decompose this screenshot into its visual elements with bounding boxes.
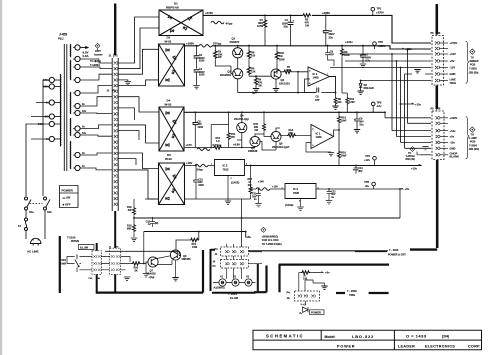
svg-text:10kF: 10kF	[341, 119, 347, 122]
svg-text:-Q/gr: -Q/gr	[149, 276, 155, 279]
potentiometer VR1	[75, 255, 79, 270]
wire J1 to D1 input1	[118, 17, 159, 63]
svg-text:+121v: +121v	[345, 40, 353, 44]
svg-text:+85V(UNREG): +85V(UNREG)	[262, 235, 279, 238]
connector J1/P1 pins	[114, 61, 118, 64]
ground IC3	[300, 199, 302, 207]
flag to CRT heater	[95, 43, 100, 48]
svg-text:T-1456A: T-1456A	[90, 63, 100, 67]
test point TP4	[373, 156, 377, 160]
svg-text:POWER & CRT: POWER & CRT	[388, 253, 406, 256]
flag to sweep	[470, 49, 475, 54]
op-amp IC1b	[311, 125, 334, 149]
LED D1 power	[303, 307, 309, 312]
svg-text:POWER: POWER	[62, 189, 74, 193]
svg-text:(2/4): (2/4)	[442, 335, 449, 339]
wire J1 to D4 input1	[118, 97, 159, 112]
wire VR1 to connectors	[67, 255, 110, 273]
svg-text:+16V: +16V	[186, 161, 193, 165]
svg-text:P4: P4	[213, 265, 217, 268]
svg-text:1u: 1u	[331, 196, 334, 199]
svg-text:IC 2: IC 2	[223, 163, 228, 167]
svg-text:2W: 2W	[248, 184, 252, 187]
svg-text:J4: J4	[215, 253, 218, 256]
label POWER boxed	[310, 310, 325, 315]
svg-text:2SC1815: 2SC1815	[279, 82, 290, 86]
svg-text:+12v: +12v	[364, 158, 371, 162]
svg-text:100: 100	[251, 55, 256, 58]
resistor R15	[263, 112, 265, 123]
svg-text:4Vpp: 4Vpp	[226, 22, 233, 26]
svg-text:A₂(1MAX): A₂(1MAX)	[214, 287, 225, 290]
connector J1/P3 body	[110, 248, 121, 274]
connector P5 heavy bar bottom	[436, 160, 439, 248]
resistor R4	[254, 77, 257, 86]
T1 secondary pin y106	[75, 103, 80, 108]
wire bus vertical C	[396, 61, 398, 137]
svg-text:47P: 47P	[315, 99, 320, 102]
wire bus taps P6	[340, 53, 431, 55]
wire Q7 Q8 couple	[156, 256, 172, 265]
bridge rectifier D1 RBPS-06	[159, 10, 203, 36]
svg-text:RBPS-06: RBPS-06	[166, 6, 179, 10]
ripple D4 out	[197, 148, 210, 151]
svg-text:ILLUM: ILLUM	[230, 296, 238, 300]
svg-text:IC 3: IC 3	[293, 187, 298, 191]
svg-text:2: 2	[312, 129, 314, 131]
wire unreg rail y231.5	[144, 232, 250, 238]
svg-text:7: 7	[327, 74, 329, 76]
wire D4 top rail	[184, 111, 385, 113]
capacitor C5	[321, 92, 335, 94]
svg-text:+12v: +12v	[450, 129, 457, 133]
wire IC2 pin3 gnd	[227, 176, 229, 201]
wire IC1a output	[330, 77, 336, 93]
wire D5 out to IC2	[185, 165, 215, 167]
svg-text:FOR H.V. OSC: FOR H.V. OSC	[262, 239, 279, 242]
connector P6 body	[432, 36, 444, 86]
transistor Q1	[233, 48, 243, 58]
wire lamps link	[213, 252, 262, 283]
svg-text:3: 3	[231, 178, 233, 180]
bridge rectifier D4 W-02	[159, 107, 184, 151]
wire J1 to D4 input2	[118, 125, 159, 143]
svg-text:GND: GND	[450, 72, 456, 76]
transistor Q8	[170, 250, 180, 260]
test point TP5	[372, 182, 376, 186]
transformer T1 secondary winding c	[69, 92, 71, 114]
title block frame	[253, 330, 482, 349]
svg-text:-12V: -12V	[450, 66, 456, 70]
svg-text:T-2554: T-2554	[469, 144, 477, 147]
svg-text:J42: J42	[97, 277, 101, 280]
lamp V3	[245, 279, 252, 286]
T1 primary pin 160V y86.5	[49, 84, 54, 89]
connector J45 body	[221, 260, 249, 269]
svg-text:O = 1433: O = 1433	[406, 334, 427, 339]
ripple 57Vpp D2 out	[199, 45, 212, 48]
lamp V2	[232, 279, 239, 286]
wire +270V rail	[203, 15, 431, 43]
wire J1 to D5 input2	[118, 170, 158, 199]
wire +12V rail	[245, 165, 421, 166]
svg-text:P4↓: P4↓	[287, 292, 291, 295]
svg-text:+: +	[293, 19, 295, 23]
svg-text:10kB: 10kB	[60, 262, 66, 265]
wire D5 bottom rail	[145, 198, 251, 200]
capacitor C7	[362, 46, 364, 56]
svg-text:P(L): P(L)	[58, 37, 64, 41]
wire bus taps P5	[392, 130, 431, 132]
T1 secondary pin y59	[75, 56, 80, 61]
svg-text:J1: J1	[109, 54, 112, 58]
connector J45 pins	[225, 262, 229, 265]
svg-text:(M): (M)	[155, 223, 159, 225]
wire T1 secondaries to J1	[80, 59, 112, 170]
wire CRT heater	[80, 47, 88, 49]
connector trig pins	[298, 295, 302, 298]
svg-text:P4: P4	[215, 248, 219, 251]
resistor R13	[338, 112, 340, 115]
wire into IC3	[251, 188, 257, 190]
connector P5 pins	[436, 116, 440, 119]
T1 secondary pin y135	[75, 132, 80, 137]
svg-text:CORP.: CORP.	[468, 345, 481, 349]
wire lamp connector verticals	[227, 244, 242, 279]
op-amp IC1a	[308, 67, 330, 86]
ground under C7	[360, 64, 366, 67]
wire to LED	[304, 301, 306, 306]
wire conn P3 to R20	[121, 257, 132, 270]
power legend box	[60, 186, 79, 208]
svg-text:47K: 47K	[230, 136, 235, 139]
svg-text:J2: J2	[107, 90, 110, 93]
svg-text:1458: 1458	[313, 76, 319, 80]
svg-text:1W: 1W	[258, 84, 262, 87]
brace P6 group	[466, 41, 470, 84]
svg-text:P42: P42	[89, 277, 94, 280]
svg-text:10kF: 10kF	[341, 154, 347, 157]
wire bus vertical B	[391, 54, 393, 131]
wire J1 to D1 input2	[118, 28, 159, 69]
resistor R10	[342, 93, 347, 97]
svg-text:S1b: S1b	[47, 210, 52, 214]
svg-text:T-2100: T-2100	[67, 235, 76, 239]
wire +12v arrow branch	[401, 103, 414, 104]
resistor R7	[281, 71, 283, 73]
wire 100V to S1a bus	[26, 103, 49, 197]
wire line trig long	[365, 80, 367, 82]
svg-text:IC 1: IC 1	[313, 72, 318, 76]
ground under C3 C4	[193, 86, 199, 89]
T1 secondary pin y80	[75, 77, 80, 82]
wire D4 bottom rail +8.8V	[184, 140, 255, 148]
capacitor C6	[327, 46, 329, 53]
svg-text:+5v: +5v	[405, 187, 410, 191]
connector P42/J42 pins	[93, 255, 96, 258]
svg-text:+100V: +100V	[450, 116, 458, 120]
svg-text:2W: 2W	[128, 209, 132, 212]
switch S1a	[25, 197, 28, 200]
capacitor C2	[325, 15, 327, 30]
T1 primary pin 100V y124	[49, 121, 54, 126]
svg-text:47P: 47P	[329, 54, 334, 57]
T1 secondary pin y67	[75, 64, 80, 69]
svg-text:-Qp/T: -Qp/T	[251, 92, 258, 95]
bridge rectifier D2 W-02	[159, 44, 185, 86]
svg-text:1u: 1u	[254, 198, 257, 201]
svg-text:10k: 10k	[337, 101, 342, 104]
wire +150V emitter rail	[238, 92, 316, 94]
svg-text:(CASE): (CASE)	[231, 182, 239, 185]
capacitor C9	[356, 112, 358, 119]
connector J1/P1 heavy bar top	[114, 4, 116, 56]
capacitor C11	[258, 189, 260, 194]
wire +168V rail	[185, 46, 432, 49]
svg-text:P6: P6	[431, 32, 435, 35]
svg-text:2SC1815-Qp/T: 2SC1815-Qp/T	[272, 145, 290, 149]
resistor R32	[276, 46, 278, 52]
svg-text:T - 2103: T - 2103	[389, 249, 399, 252]
svg-text:J5: J5	[438, 107, 441, 110]
capacitor C10	[195, 166, 197, 181]
wire switch to plug	[26, 210, 45, 239]
svg-text:TP3: TP3	[377, 100, 382, 104]
svg-text:SCHEMATIC: SCHEMATIC	[266, 334, 304, 339]
svg-text:R62 (2b): R62 (2b)	[406, 158, 416, 161]
svg-text:TP4: TP4	[365, 154, 370, 158]
svg-text:1W: 1W	[305, 24, 309, 28]
svg-text:Q3: Q3	[281, 78, 285, 82]
svg-text:1458: 1458	[316, 135, 322, 139]
ripple D5 out	[195, 164, 208, 167]
resistor R11	[228, 112, 230, 132]
svg-text:7812: 7812	[223, 168, 229, 172]
fuse ripple into IC3	[256, 188, 270, 191]
resistor R16	[338, 130, 340, 151]
svg-text:12K: 12K	[251, 71, 256, 74]
transformer T1 secondary winding a	[69, 44, 71, 57]
svg-text:PCB: PCB	[470, 141, 475, 144]
svg-text:TO T-2503 F1(3b): TO T-2503 F1(3b)	[262, 243, 282, 246]
shield TRIG thick segs	[254, 266, 267, 293]
T1 secondary pin y113	[75, 110, 80, 115]
svg-text:T-2502: T-2502	[469, 68, 477, 71]
svg-text:0.3A: 0.3A	[83, 54, 90, 58]
svg-text:LEADER: LEADER	[398, 345, 415, 349]
svg-text:7805: 7805	[293, 191, 299, 195]
transistor Q6	[271, 131, 281, 141]
svg-text:J2B (5b): J2B (5b)	[469, 71, 479, 74]
connector trig body	[295, 291, 320, 301]
wire +100V feed	[385, 112, 431, 118]
wire 170V to S1b bus	[43, 80, 49, 196]
label ILLUM boxed	[79, 245, 95, 250]
ground at J1	[118, 80, 128, 81]
resistor R5	[248, 64, 250, 66]
svg-text:0.7Vpp: 0.7Vpp	[213, 143, 222, 147]
svg-text:+12v: +12v	[411, 167, 418, 171]
wire IC1a inputs	[298, 72, 308, 93]
test point TP1	[371, 7, 375, 11]
resistor R21	[198, 232, 200, 241]
regulator IC3 7805	[285, 184, 316, 199]
svg-text:BLANK: BLANK	[450, 155, 459, 159]
svg-text:GND: GND	[450, 147, 456, 151]
svg-text:J4: J4	[213, 260, 216, 263]
svg-text:POWER: POWER	[337, 344, 355, 348]
resistor R6	[248, 46, 250, 51]
svg-text:RD9.1EB: RD9.1EB	[364, 87, 374, 90]
svg-text:2SB405: 2SB405	[182, 258, 192, 261]
svg-text:10K: 10K	[286, 69, 291, 72]
T1 secondary pin y93	[75, 90, 80, 95]
connector J1/P3 pins	[111, 255, 114, 258]
svg-text:J4↑: J4↑	[287, 297, 291, 300]
shield T-2103 corner	[410, 248, 437, 250]
capacitor C8	[194, 112, 196, 122]
svg-text:1/2W: 1/2W	[257, 24, 264, 28]
transistor Q4	[237, 123, 247, 133]
ground under Q3	[275, 79, 277, 88]
capacitor C12	[328, 189, 330, 192]
transformer T1 secondary winding d	[69, 118, 71, 136]
svg-text:2SD870: 2SD870	[230, 40, 240, 44]
svg-text:+273V: +273V	[205, 11, 213, 15]
svg-text:J1: J1	[109, 246, 112, 248]
zener D3	[360, 81, 362, 84]
svg-text:▬ ON: ▬ ON	[63, 196, 71, 200]
svg-text:2200: 2200	[199, 74, 205, 77]
svg-text:Model:: Model:	[325, 335, 336, 339]
svg-text:+12v: +12v	[415, 102, 422, 106]
svg-text:P1: P1	[115, 54, 119, 58]
brace P5 group	[466, 117, 470, 160]
svg-text:1.8: 1.8	[216, 140, 220, 143]
resistor R3	[214, 46, 216, 50]
wire J1 to D5 input1	[118, 153, 158, 169]
capacitor C14	[355, 166, 357, 169]
transistor Q3	[271, 69, 281, 79]
test point TP2	[373, 42, 377, 46]
capacitor C15	[152, 218, 154, 222]
connector P42/J42 body	[92, 251, 102, 274]
svg-text:+150v: +150v	[405, 47, 413, 51]
wire long rail y218	[134, 217, 400, 219]
transistor Q7	[148, 257, 158, 267]
resistor R18	[133, 218, 135, 224]
svg-text:J8: J8	[438, 32, 441, 35]
svg-text:2200: 2200	[198, 184, 204, 187]
ground under C9	[354, 130, 360, 133]
svg-text:F1: F1	[18, 224, 22, 228]
wire J1 to D2 input1	[118, 49, 158, 74]
wire J1 to D2 input2	[118, 80, 158, 86]
svg-text:INTEN: INTEN	[71, 239, 79, 243]
svg-text:100K: 100K	[344, 54, 350, 57]
svg-text:-12v: -12v	[450, 141, 456, 145]
svg-text:5: 5	[309, 71, 311, 73]
resistor R1 trig	[299, 272, 301, 274]
svg-text:IC 1: IC 1	[316, 132, 321, 136]
shield lamp bracket	[211, 249, 216, 291]
svg-text:TP2: TP2	[378, 40, 383, 44]
wire bus vertical D	[400, 68, 402, 143]
ground at P6 GND pin	[414, 70, 420, 73]
ripple 4Vpp D1 out	[211, 21, 224, 24]
label +150V arrow	[398, 48, 404, 49]
svg-text:ELECTRONICS: ELECTRONICS	[425, 345, 455, 349]
transformer T1 core	[64, 44, 67, 171]
svg-text:LBO-522: LBO-522	[352, 334, 374, 339]
bridge rectifier D5 W-02	[159, 163, 185, 205]
resistor R1	[264, 15, 266, 19]
svg-text:3K: 3K	[135, 270, 138, 273]
svg-text:Q1: Q1	[232, 37, 236, 41]
svg-text:T - 2505: T - 2505	[347, 289, 357, 293]
flag to V AMP	[470, 127, 475, 132]
svg-text:16v: 16v	[82, 110, 87, 113]
transistor Q2	[233, 69, 243, 79]
svg-text:1/2W: 1/2W	[279, 58, 285, 61]
wire +150V bus jog	[408, 50, 432, 124]
svg-text:2200: 2200	[199, 60, 205, 63]
T1 primary pin 170V y80	[49, 77, 54, 82]
wire gnd-ish rail y251	[105, 251, 181, 255]
svg-text:+150V: +150V	[378, 44, 386, 48]
T1 secondary pin y168	[75, 165, 80, 170]
svg-text:TO ③(P₁): TO ③(P₁)	[90, 59, 101, 63]
ground under Q8	[175, 261, 177, 277]
wire +5V down to gnd rail	[399, 189, 401, 218]
svg-text:57Vpp: 57Vpp	[213, 42, 222, 46]
svg-text:+12V: +12V	[450, 52, 457, 56]
svg-text:POWER: POWER	[311, 311, 321, 315]
capacitor C4	[194, 70, 200, 72]
T1 secondary pin y47.5	[75, 45, 80, 50]
svg-text:+17V: +17V	[186, 143, 193, 147]
svg-text:AC LINE: AC LINE	[27, 250, 39, 254]
ground under Q7	[146, 262, 149, 273]
resistor R20	[132, 262, 141, 265]
svg-text:■ OFF: ■ OFF	[63, 202, 71, 206]
connector P44 body	[221, 247, 249, 256]
svg-text:D₁: D₁	[300, 312, 303, 315]
resistor R14	[280, 135, 287, 137]
connector P6 heavy bar top	[435, 4, 438, 35]
svg-text:+270V: +270V	[450, 41, 458, 45]
svg-text:+266V: +266V	[322, 11, 330, 15]
svg-text:12kF: 12kF	[349, 101, 355, 104]
svg-text:W-02: W-02	[165, 103, 172, 107]
T1 primary pin 0V y102.5	[49, 100, 54, 105]
svg-text:S1a: S1a	[29, 210, 34, 214]
svg-text:+168V: +168V	[186, 41, 194, 45]
wire D4 mid branch	[211, 125, 228, 148]
svg-text:56K: 56K	[127, 227, 132, 230]
connector P6 pins	[435, 41, 439, 44]
svg-text:(CASE): (CASE)	[285, 204, 293, 207]
wire +5V rail	[316, 188, 400, 190]
capacitor C1	[290, 15, 292, 22]
ground near P5	[422, 147, 428, 150]
svg-text:+5v: +5v	[450, 135, 455, 139]
scan edge left	[0, 0, 2, 355]
connector P5 body	[432, 111, 444, 160]
resistor R12	[213, 146, 222, 149]
svg-text:+8.8V: +8.8V	[233, 143, 240, 147]
svg-text:16v: 16v	[82, 132, 87, 135]
